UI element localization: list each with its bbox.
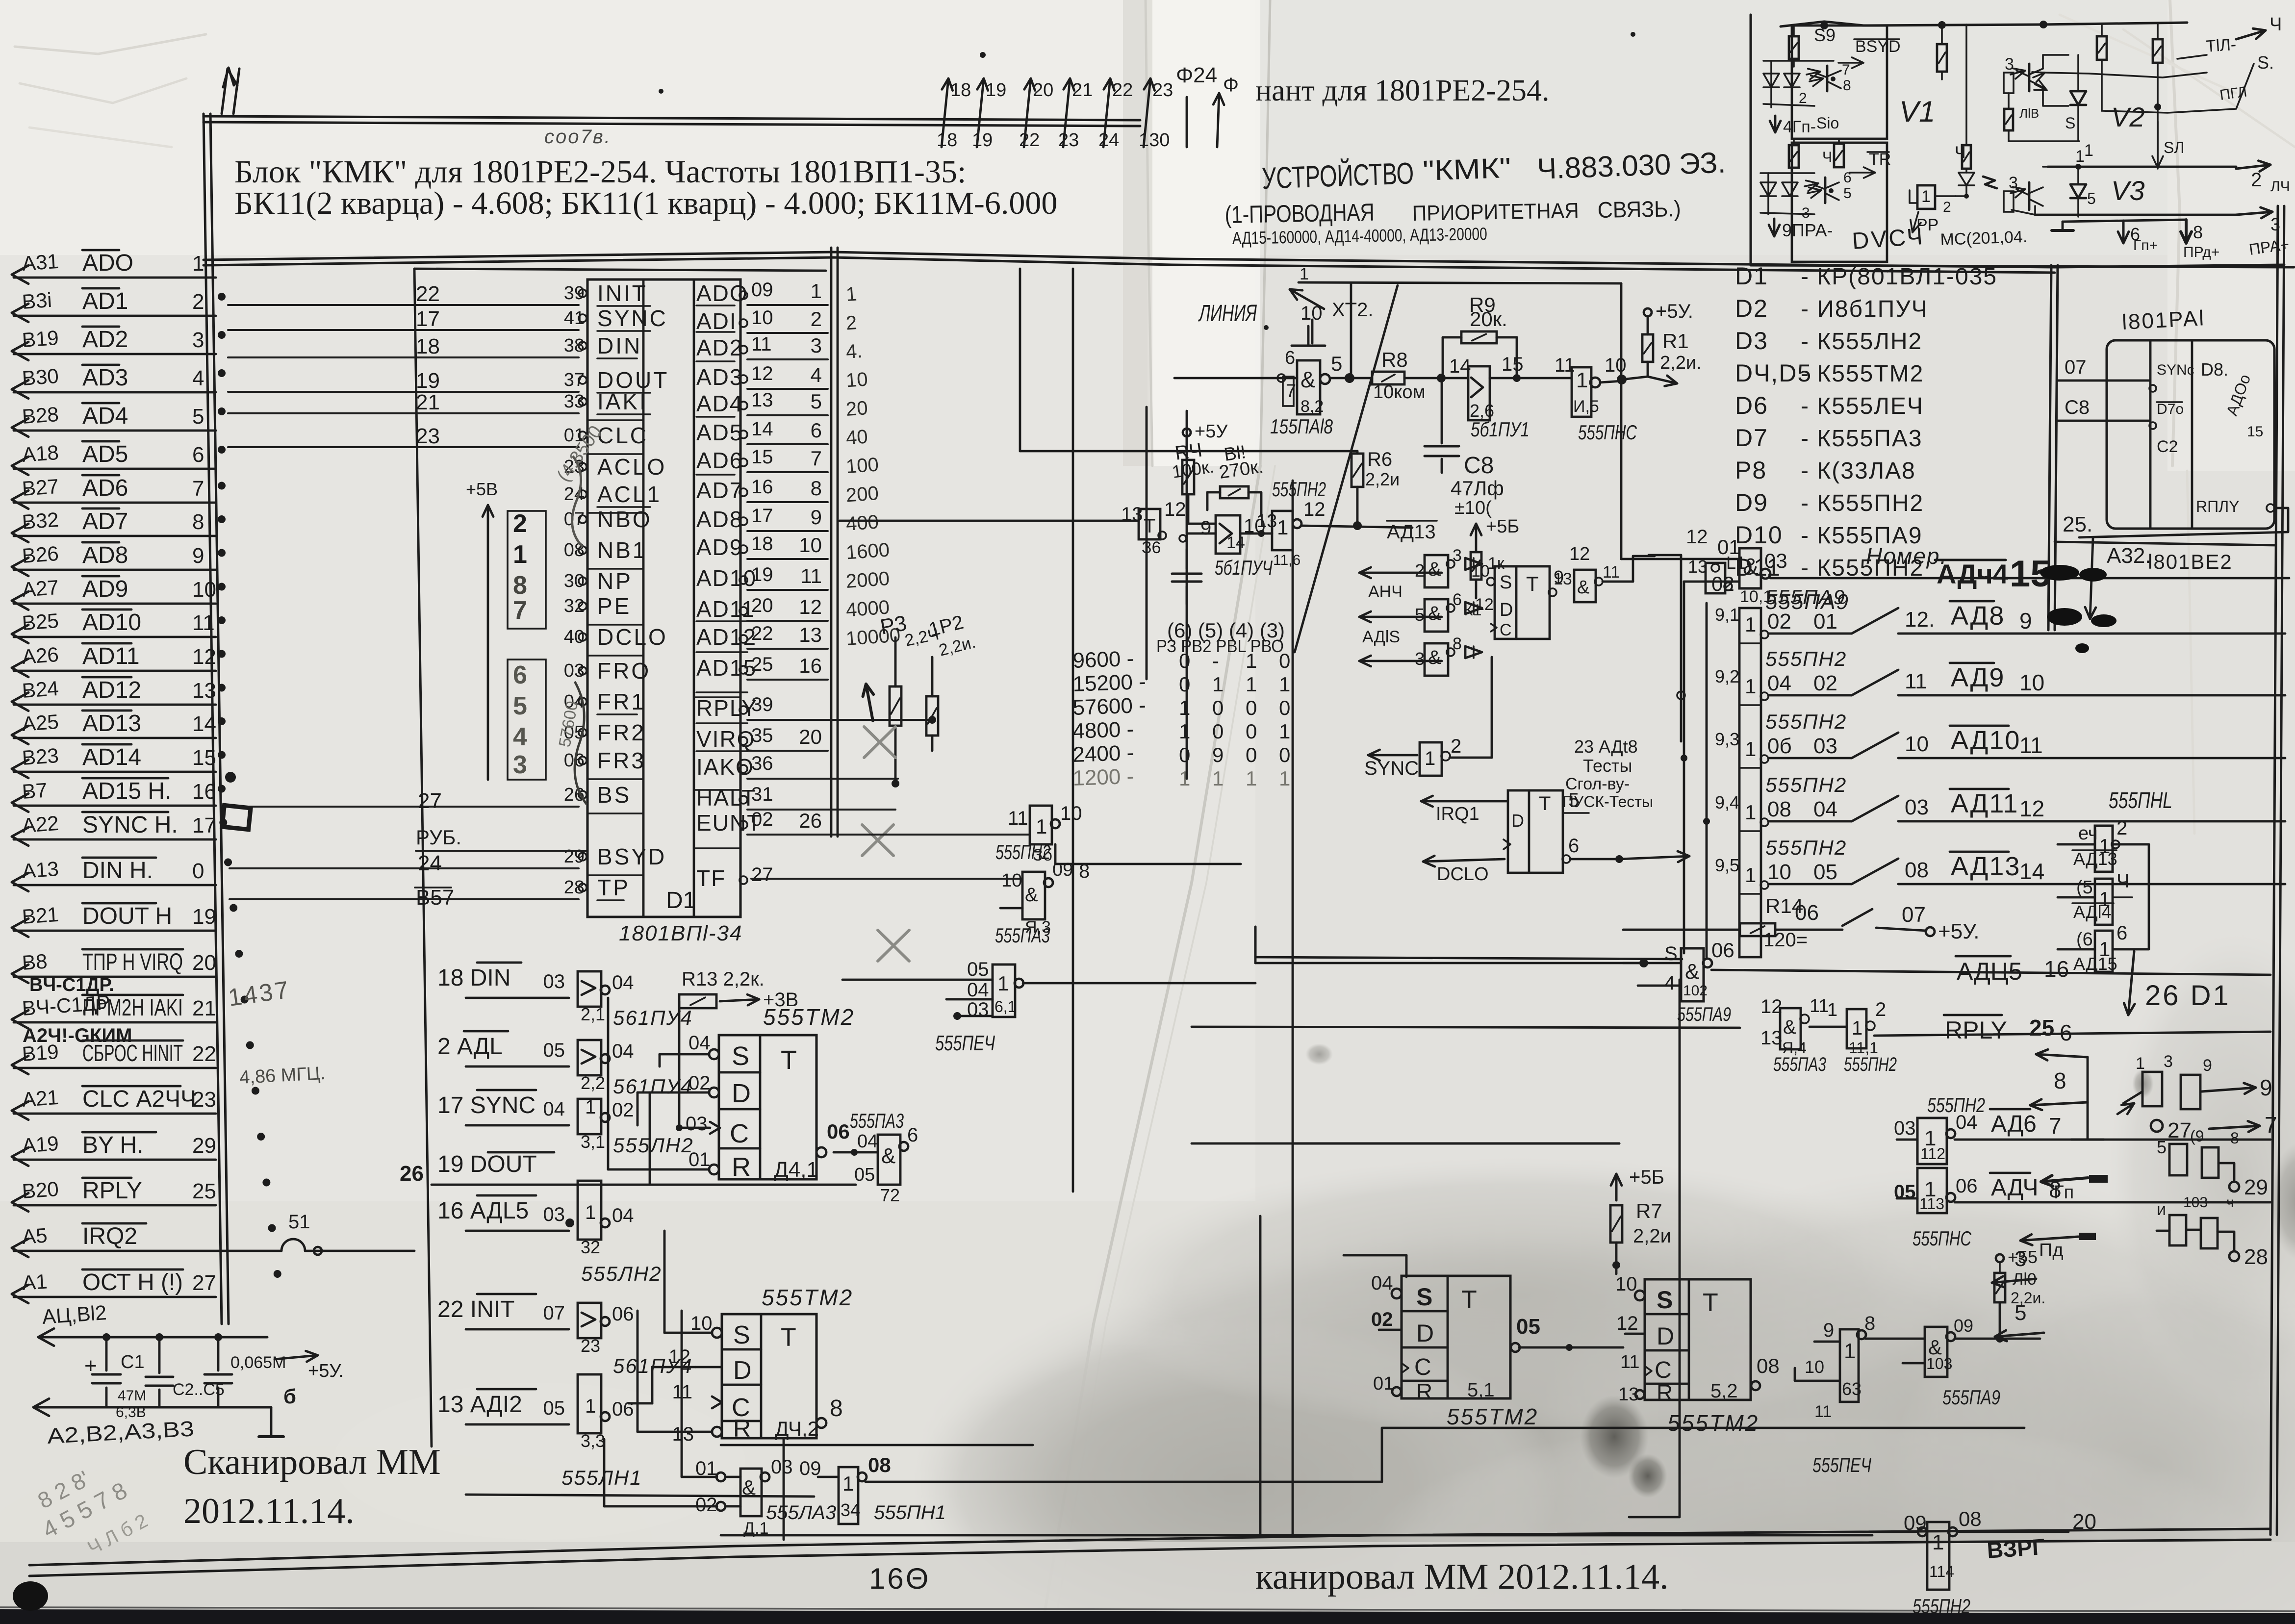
svg-text:б: б <box>283 1385 296 1408</box>
svg-text:17 SYNC: 17 SYNC <box>437 1092 535 1118</box>
svg-text:АДlS: АДlS <box>1362 628 1400 646</box>
buffer 561PU4 mid <box>1188 515 1273 579</box>
pencil X marks <box>862 684 909 961</box>
svg-text:9: 9 <box>1212 743 1224 766</box>
svg-text:12: 12 <box>1616 1313 1638 1334</box>
svg-text:Сгол-ву-: Сгол-ву- <box>1565 775 1630 793</box>
svg-text:2000: 2000 <box>845 568 891 592</box>
svg-text:Т: Т <box>1461 1286 1477 1314</box>
svg-text:7: 7 <box>192 477 204 501</box>
svg-text:01: 01 <box>1813 609 1837 634</box>
svg-text:&: & <box>1577 577 1589 598</box>
V1 lower resistors <box>1789 139 1844 168</box>
wire: vertical x3425 lower <box>1629 980 1680 1517</box>
wire: bottom net y2947 <box>721 1428 1033 1445</box>
arrow 3 <box>1992 1247 2036 1308</box>
arrow 26 D1 <box>2124 951 2231 1015</box>
svg-text:ПРМ2Н IAKI: ПРМ2Н IAKI <box>82 995 183 1021</box>
svg-text:16: 16 <box>192 780 216 804</box>
resistor R8 <box>1372 348 1468 403</box>
svg-text:Φ24: Φ24 <box>1176 63 1217 87</box>
svg-text:11: 11 <box>192 611 215 635</box>
svg-text:AD7: AD7 <box>696 478 743 503</box>
svg-text:1: 1 <box>1036 815 1047 838</box>
svg-text:АД13: АД13 <box>1387 521 1436 543</box>
svg-text:V1: V1 <box>1899 95 1935 128</box>
svg-text:63: 63 <box>1842 1379 1861 1399</box>
svg-text:06: 06 <box>1956 1175 1978 1197</box>
svg-text:5,1: 5,1 <box>1467 1379 1495 1401</box>
svg-text:- КР(801ВЛ1-035: - КР(801ВЛ1-035 <box>1801 264 1997 290</box>
svg-text:22: 22 <box>1019 130 1040 151</box>
label 1801RA1 <box>2121 306 2206 334</box>
svg-text:6: 6 <box>2060 1020 2072 1045</box>
V3 vertical resistor 4 <box>1955 25 1974 199</box>
svg-text:11: 11 <box>1008 808 1028 829</box>
svg-text:05: 05 <box>543 1040 565 1061</box>
svg-text:ОСТ Н (!): ОСТ Н (!) <box>82 1269 183 1295</box>
printed note right of fold <box>1255 74 1549 107</box>
svg-text:еч: еч <box>2078 823 2098 844</box>
svg-text:555ПА9: 555ПА9 <box>1765 585 1846 609</box>
wire: long horizontal y1952 <box>1255 927 1682 959</box>
svg-text:16 АДL5: 16 АДL5 <box>437 1198 529 1224</box>
svg-text:29: 29 <box>564 846 585 867</box>
svg-text:АД6: АД6 <box>1991 1111 2037 1137</box>
svg-text:26: 26 <box>799 809 822 832</box>
svg-text:06: 06 <box>827 1120 850 1143</box>
svg-text:03: 03 <box>1764 549 1787 572</box>
V2 diode <box>2065 55 2145 160</box>
svg-text:соо7в.: соо7в. <box>544 126 612 148</box>
svg-text:(6: (6 <box>2076 929 2093 950</box>
svg-text:03: 03 <box>1905 795 1929 819</box>
svg-text:6: 6 <box>192 443 204 467</box>
svg-text:9ПРА-: 9ПРА- <box>1782 220 1833 240</box>
svg-text:Ч: Ч <box>1822 149 1832 165</box>
svg-text:- К(33ЛА8: - К(33ЛА8 <box>1801 458 1916 484</box>
inverter D3 555LNC <box>1555 355 1637 444</box>
svg-text:3: 3 <box>192 328 204 352</box>
svg-text:07: 07 <box>543 1302 565 1324</box>
svg-text:555ПА3: 555ПА3 <box>850 1109 904 1132</box>
svg-text:2 АДL: 2 АДL <box>437 1034 503 1060</box>
label 9PRA minus <box>1769 219 1833 240</box>
svg-text:Ч: Ч <box>2116 870 2130 892</box>
svg-text:04: 04 <box>1956 1112 1978 1133</box>
arrows Pd minus <box>2020 1233 2096 1261</box>
svg-text:1: 1 <box>1277 516 1288 539</box>
wire row 19 DOUT <box>432 1151 856 1185</box>
connector pin row 24: A19 BY Н. <box>12 1132 216 1166</box>
wire: vertical x2338 <box>1147 407 1174 679</box>
svg-text:5: 5 <box>513 692 527 720</box>
svg-text:22: 22 <box>416 282 440 306</box>
svg-text:08: 08 <box>1757 1354 1780 1377</box>
svg-text:06: 06 <box>1711 939 1734 962</box>
connector pin row 3: B19 AD2 <box>12 326 216 360</box>
svg-text:19 DOUT: 19 DOUT <box>437 1151 537 1177</box>
svg-text:A22: A22 <box>21 812 59 837</box>
capacitor C8 <box>1425 378 1504 518</box>
svg-text:IAKI: IAKI <box>597 389 648 414</box>
svg-text:20: 20 <box>1033 80 1053 101</box>
ground bottom left <box>259 1385 296 1437</box>
svg-text:R8: R8 <box>1381 348 1408 371</box>
frame: bottom border double line <box>29 1529 2270 1576</box>
svg-text:05: 05 <box>854 1165 875 1185</box>
svg-text:АД10: АД10 <box>1951 726 2020 755</box>
svg-text:32: 32 <box>564 596 585 616</box>
svg-text:03: 03 <box>1813 734 1837 758</box>
svg-text:04: 04 <box>1371 1272 1393 1294</box>
svg-text:- К555ТМ2: - К555ТМ2 <box>1801 361 1924 387</box>
svg-text:S.: S. <box>2257 52 2274 73</box>
svg-text:1: 1 <box>1179 720 1190 743</box>
svg-text:13: 13 <box>1554 570 1572 588</box>
svg-text:05: 05 <box>543 1397 565 1419</box>
svg-text:01: 01 <box>1373 1373 1394 1394</box>
pencil note 1437 <box>227 976 292 1012</box>
svg-text:561ПУ4: 561ПУ4 <box>613 1006 693 1029</box>
svg-text:SYNC: SYNC <box>1364 758 1419 779</box>
svg-text:25: 25 <box>2029 1015 2054 1040</box>
svg-text:C: C <box>1414 1354 1431 1380</box>
svg-text:ЛlВ: ЛlВ <box>2019 106 2039 121</box>
wire: vertical bus x2080 <box>1019 269 1021 451</box>
svg-text:26 D1: 26 D1 <box>2145 980 2231 1012</box>
wire: D5.1 to D5.2 <box>1519 1344 1623 1351</box>
svg-text:S: S <box>1664 943 1678 964</box>
resistor R6 2.2k <box>1351 449 1400 530</box>
svg-text:15: 15 <box>192 746 216 770</box>
svg-text:8: 8 <box>1453 634 1462 653</box>
svg-text:22: 22 <box>1112 80 1133 101</box>
svg-text:0: 0 <box>1246 696 1257 719</box>
svg-text:05: 05 <box>1813 860 1837 884</box>
svg-text:5: 5 <box>811 390 822 413</box>
svg-text:NBO: NBO <box>597 507 652 532</box>
svg-text:9,3: 9,3 <box>1715 729 1739 749</box>
svg-text:B30: B30 <box>21 364 59 390</box>
svg-text:1: 1 <box>1745 675 1756 698</box>
svg-text:9: 9 <box>811 506 822 529</box>
svg-text:3,1: 3,1 <box>581 1132 605 1152</box>
svg-text:14: 14 <box>751 418 773 440</box>
svg-text:A5: A5 <box>21 1224 48 1248</box>
svg-text:555ТМ2: 555ТМ2 <box>762 1285 853 1310</box>
resistor R3 <box>878 611 941 787</box>
svg-text:и: и <box>2157 1200 2166 1219</box>
svg-text:B32: B32 <box>21 508 59 533</box>
svg-text:РУБ.: РУБ. <box>416 826 461 849</box>
svg-text:555ЛН2: 555ЛН2 <box>581 1262 662 1285</box>
svg-text:АД8: АД8 <box>1951 601 2005 631</box>
svg-text:AD4: AD4 <box>82 403 128 429</box>
pencil note 4.86MHz <box>239 1063 326 1088</box>
svg-text:AD11: AD11 <box>82 643 140 669</box>
opamp D2 561PU1 <box>1449 354 1572 441</box>
svg-text:5: 5 <box>1331 352 1342 375</box>
svg-text:02: 02 <box>1767 609 1791 634</box>
svg-text:(9: (9 <box>2190 1127 2204 1145</box>
svg-text:8: 8 <box>2193 222 2203 242</box>
svg-text:10: 10 <box>1001 870 1022 891</box>
svg-text:AD8: AD8 <box>82 542 128 568</box>
wire: IAKO net to arbiter <box>1187 778 1195 779</box>
svg-text:27: 27 <box>751 864 773 886</box>
buffer row 18 DIN (561PU4) <box>437 963 693 1029</box>
svg-text:8: 8 <box>830 1396 843 1421</box>
svg-text:B21: B21 <box>21 903 59 928</box>
svg-text:DIN Н.: DIN Н. <box>82 858 153 884</box>
svg-text:TP: TP <box>597 875 630 900</box>
svg-text:02: 02 <box>612 1099 634 1121</box>
resistor R9 feedback <box>1443 293 1521 382</box>
svg-text:9: 9 <box>2203 1056 2212 1075</box>
inverter row 16 ADL5 (555LN2) <box>437 1181 662 1285</box>
svg-text:4: 4 <box>811 363 822 386</box>
svg-text:БК11(2 кварца) - 4.608; БК11(1: БК11(2 кварца) - 4.608; БК11(1 кварц) - … <box>234 185 1057 221</box>
label DVC4 <box>1851 224 1925 254</box>
svg-text:B26: B26 <box>21 542 59 567</box>
page number 160 <box>869 1562 930 1595</box>
svg-text:13: 13 <box>1618 1384 1639 1405</box>
svg-text:02: 02 <box>751 809 773 830</box>
svg-text:555ПНС: 555ПНС <box>1912 1227 1971 1250</box>
svg-text:555ПН2: 555ПН2 <box>1765 773 1847 796</box>
svg-text:5: 5 <box>1415 605 1425 625</box>
label TR arrow <box>1850 150 1891 178</box>
svg-text:9: 9 <box>192 544 204 568</box>
svg-text:9,5: 9,5 <box>1715 855 1739 875</box>
svg-text:14: 14 <box>2019 859 2044 884</box>
pin numbers column x848 <box>415 282 586 910</box>
wire: net A <box>1255 927 1644 963</box>
svg-text:1: 1 <box>1246 649 1257 672</box>
baud rate table <box>1072 619 1291 790</box>
V1 phototransistor <box>1807 62 1851 94</box>
svg-text:15: 15 <box>751 446 773 468</box>
svg-text:2: 2 <box>845 312 858 334</box>
svg-text:RPLY: RPLY <box>696 695 758 721</box>
svg-text:1: 1 <box>585 1202 596 1223</box>
svg-text:СВЯЗЬ.): СВЯЗЬ.) <box>1597 196 1681 223</box>
svg-text:Тесты: Тесты <box>1583 756 1632 776</box>
svg-text:+: + <box>84 1354 97 1378</box>
svg-text:555ПНС: 555ПНС <box>1578 421 1637 444</box>
connector pin row 25: B20 RPLY <box>12 1177 216 1212</box>
svg-text:2: 2 <box>1451 736 1461 757</box>
arrow 5 <box>1995 1301 2044 1362</box>
svg-text:40: 40 <box>564 627 585 647</box>
test note text <box>1562 736 1653 811</box>
svg-text:17: 17 <box>192 813 216 837</box>
svg-text:2,2и.: 2,2и. <box>1660 353 1702 373</box>
svg-text:Т: Т <box>1703 1289 1718 1317</box>
connector pin row 2: B3i AD1 <box>12 288 216 322</box>
svg-text:13: 13 <box>1256 511 1277 532</box>
opto top rail <box>1781 21 2187 29</box>
svg-text:25: 25 <box>192 1179 216 1203</box>
svg-text:Пд: Пд <box>2039 1240 2064 1261</box>
frame: top border line A <box>204 116 1140 126</box>
svg-text:8: 8 <box>1079 861 1090 882</box>
svg-text:18: 18 <box>416 334 440 358</box>
svg-text:2: 2 <box>1875 999 1886 1020</box>
svg-text:05: 05 <box>1516 1315 1540 1339</box>
svg-text:1: 1 <box>2075 147 2085 166</box>
svg-text:И,5: И,5 <box>1573 397 1599 416</box>
connector pin row 12: A26 AD11 <box>12 643 216 677</box>
svg-text:2,2и: 2,2и <box>1365 469 1400 489</box>
svg-text:19: 19 <box>416 369 440 393</box>
mux gate strip <box>1739 608 1761 957</box>
svg-text:D: D <box>1500 600 1513 620</box>
wire: arbiter k1 net <box>1464 552 1550 619</box>
svg-text:02: 02 <box>1813 671 1837 695</box>
svg-text:04: 04 <box>1767 671 1791 695</box>
svg-text:&: & <box>1025 884 1038 906</box>
svg-text:AD9: AD9 <box>696 534 743 560</box>
svg-text:29: 29 <box>2244 1175 2268 1199</box>
svg-text:AD3: AD3 <box>82 365 128 391</box>
svg-text:2: 2 <box>192 290 204 314</box>
svg-text:16: 16 <box>751 476 773 498</box>
connector pin row 22: B19 СБРОС НINIT <box>12 1040 216 1074</box>
svg-text:А32.: А32. <box>2107 544 2151 568</box>
svg-text:04: 04 <box>688 1032 711 1054</box>
svg-text:S: S <box>733 1321 750 1349</box>
label MC1201 <box>1940 228 2028 249</box>
svg-text:D: D <box>733 1356 752 1385</box>
svg-text:8: 8 <box>1864 1313 1875 1334</box>
svg-text:08: 08 <box>1767 797 1791 821</box>
capacitor C2-C5 <box>146 1333 225 1407</box>
svg-text:25: 25 <box>751 654 773 675</box>
frame: inner right vertical double line <box>2048 265 2058 630</box>
svg-text:S: S <box>1657 1286 1673 1314</box>
svg-text:17: 17 <box>416 307 440 331</box>
svg-text:1: 1 <box>1745 801 1756 824</box>
svg-text:0: 0 <box>1246 720 1257 743</box>
arbiter T flip-flop <box>1471 562 1569 639</box>
svg-text:04: 04 <box>612 1040 634 1062</box>
svg-text:1: 1 <box>1300 265 1309 283</box>
DIP switch pencil digits <box>508 509 546 780</box>
svg-text:7: 7 <box>1286 381 1296 402</box>
svg-text:B23: B23 <box>21 744 59 769</box>
resistor R11 270k <box>1207 442 1265 516</box>
svg-text:13: 13 <box>751 389 773 411</box>
svg-text:СБРОС НINIT: СБРОС НINIT <box>82 1040 183 1066</box>
frame: left border double line <box>204 114 229 1324</box>
svg-text:27: 27 <box>418 789 442 813</box>
svg-text:1: 1 <box>1212 767 1224 790</box>
svg-text:2,1: 2,1 <box>581 1004 605 1024</box>
arrows Gp minus <box>2041 1175 2109 1203</box>
V1 diode pair <box>1763 61 1834 107</box>
wire: N marker arrow above left border <box>222 68 239 114</box>
svg-text:2: 2 <box>1799 90 1807 106</box>
svg-text:5: 5 <box>192 405 204 429</box>
svg-text:1: 1 <box>1827 1000 1837 1020</box>
svg-text:FR3: FR3 <box>597 748 646 773</box>
svg-text:555ПН2: 555ПН2 <box>1765 647 1847 670</box>
svg-text:2400 -: 2400 - <box>1072 741 1134 767</box>
flip-flop D4.2 555TM2 <box>669 1285 854 1446</box>
wire: long vertical 4160 <box>2040 1140 2040 1532</box>
svg-text:36: 36 <box>751 753 773 774</box>
svg-text:1: 1 <box>585 1096 596 1118</box>
svg-text:D: D <box>1657 1322 1674 1350</box>
svg-text:D: D <box>1511 811 1524 831</box>
label A12 B12 <box>41 1301 107 1328</box>
svg-text:2: 2 <box>2251 169 2262 191</box>
svg-text:28: 28 <box>564 877 585 898</box>
svg-text:23: 23 <box>416 424 440 448</box>
svg-text:08: 08 <box>1959 1507 1982 1530</box>
mux feed verticals <box>1633 559 1710 957</box>
label PP <box>1911 212 1938 234</box>
svg-text:D9: D9 <box>1735 489 1768 516</box>
svg-text:03: 03 <box>564 660 585 681</box>
svg-text:- К555ПА3: - К555ПА3 <box>1801 426 1923 452</box>
svg-text:- К555ЛЕЧ: - К555ЛЕЧ <box>1801 393 1924 419</box>
svg-text:З6: З6 <box>1142 538 1161 557</box>
svg-text:1: 1 <box>997 972 1009 995</box>
wire: bus to gate 13 input <box>840 520 1139 522</box>
resistor R4 100k <box>1171 439 1216 524</box>
V2 top resistors <box>2097 24 2163 169</box>
svg-text:(5: (5 <box>2076 877 2093 898</box>
svg-text:AD7: AD7 <box>82 508 128 534</box>
svg-text:555ПА9: 555ПА9 <box>1677 1004 1731 1025</box>
svg-text:06: 06 <box>1795 901 1819 925</box>
inverter row 17 SYNC (555LN2) <box>437 1090 694 1157</box>
svg-text:555ПН2: 555ПН2 <box>1912 1595 1970 1618</box>
svg-text:ACL1: ACL1 <box>597 482 662 507</box>
AD13 arbiter gates with diodes <box>1359 546 1514 676</box>
svg-text:- К555ЛН2: - К555ЛН2 <box>1801 329 1922 355</box>
svg-text:DIN: DIN <box>597 333 642 358</box>
wire: vertical bus x2188 <box>1072 269 1074 1192</box>
svg-text:37: 37 <box>564 370 585 390</box>
svg-text:2: 2 <box>2116 817 2127 839</box>
svg-text:22 INIT: 22 INIT <box>437 1296 514 1322</box>
svg-text:47М: 47М <box>118 1388 146 1404</box>
svg-text:B28: B28 <box>21 403 59 428</box>
svg-text:1: 1 <box>2136 1054 2145 1073</box>
flip-flop D5.1 555TM2 <box>1371 1272 1540 1404</box>
svg-text:DOUT Н: DOUT Н <box>82 903 172 929</box>
svg-text:1: 1 <box>1852 1017 1862 1039</box>
svg-text:9: 9 <box>1200 517 1211 539</box>
svg-text:ЛИНИЯ: ЛИНИЯ <box>1198 301 1257 327</box>
svg-text:23: 23 <box>1058 130 1079 151</box>
svg-text:3: 3 <box>811 334 822 357</box>
svg-text:02: 02 <box>1711 572 1734 595</box>
svg-text:9,2: 9,2 <box>1715 666 1739 686</box>
svg-text:18: 18 <box>751 533 773 555</box>
svg-text:l801РАl: l801РАl <box>2121 306 2206 334</box>
svg-text:07: 07 <box>1902 903 1926 927</box>
svg-text:AD1: AD1 <box>82 288 128 314</box>
svg-text:B27: B27 <box>21 475 59 500</box>
svg-text:09: 09 <box>1954 1316 1973 1336</box>
svg-text:113: 113 <box>1919 1195 1944 1213</box>
svg-text:555ПЕЧ: 555ПЕЧ <box>1812 1453 1872 1476</box>
